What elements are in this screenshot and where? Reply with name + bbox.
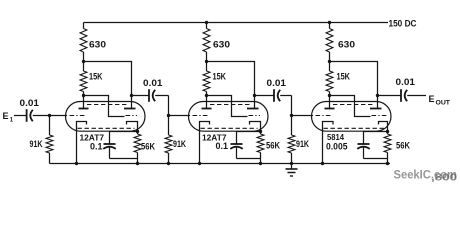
tube V2 lower internal dashed line: [201, 127, 258, 129]
capacitor C1 0.01 input coupling: [27, 109, 33, 122]
label 15K stage 2: [213, 72, 227, 82]
wire coupling drop to stage 2 grid: [169, 96, 191, 116]
node cathode junction stage 2: [259, 130, 262, 133]
tube V3 right cathode and lead: [379, 122, 388, 132]
node 630 stage 2 supply junction: [205, 21, 208, 24]
node X stage 3 (630/15K junction): [328, 60, 331, 63]
tube V2 12AT7 envelope: [189, 102, 269, 132]
label R2 91K: [30, 139, 43, 149]
wire cathode node line stage 1: [110, 131, 138, 133]
capacitor 0.01 coupling stage 1: [149, 89, 155, 102]
resistor 91K grid leak stage 3: [288, 116, 295, 164]
label 630 stage 1: [89, 40, 106, 50]
tube V1 left cathode and lead to ground: [77, 122, 87, 164]
wire step to right grid stage 1: [84, 96, 125, 117]
node cathode junction stage 3: [386, 130, 389, 133]
svg-text:0.01: 0.01: [267, 78, 287, 88]
svg-text:150 DC: 150 DC: [389, 19, 417, 29]
tube V3 left plate bar: [325, 108, 335, 110]
tube V2 left plate bar: [202, 108, 212, 110]
svg-text:5814: 5814: [327, 132, 344, 142]
svg-text:630: 630: [338, 40, 355, 50]
wire left plate lead stage 1: [83, 96, 85, 109]
resistor 56K cathode stage 2: [257, 132, 264, 164]
tube V2 right plate bar: [247, 108, 259, 110]
wire plate to coupling cap stage 1: [132, 95, 149, 97]
tube V2 right cathode and lead: [250, 122, 261, 132]
label tube V3 5814: [327, 132, 344, 142]
svg-text:0.01: 0.01: [20, 98, 40, 108]
label 15K stage 3: [337, 72, 351, 82]
capacitor 0.01 coupling stage 2: [274, 89, 280, 102]
wire step to right grid stage 2: [207, 96, 248, 117]
capacitor 0.01 coupling stage 3: [401, 89, 407, 102]
label C1 0.01: [20, 98, 40, 108]
label coupling 0.01 stage 1: [143, 78, 163, 88]
tube V2 left cathode and lead to ground: [200, 122, 210, 164]
label 15K stage 1: [89, 72, 103, 82]
label 91K stage 2: [173, 139, 186, 149]
wire E1 to C1: [14, 115, 26, 117]
wire cathode node line stage 2: [237, 131, 261, 133]
svg-text:91K: 91K: [296, 139, 309, 149]
wire node X to right plate stage 3: [330, 62, 378, 109]
svg-text:91K: 91K: [173, 139, 186, 149]
resistor 56K cathode stage 3: [384, 132, 391, 164]
resistor R2 91K grid leak stage 1: [46, 116, 53, 164]
svg-text:,800: ,800: [431, 173, 458, 184]
resistor 15K stage 1: [80, 62, 87, 96]
svg-text:0.1: 0.1: [216, 141, 229, 151]
tube V3 left cathode and lead to ground: [323, 122, 334, 164]
node 91K stage 2 ground junction: [167, 162, 170, 165]
node right plate / coupling junction stage 3: [376, 94, 379, 97]
node cathode junction stage 1: [136, 130, 139, 133]
wire coupling drop to stage 3 grid: [292, 96, 314, 116]
node 56K stage 1 ground junction: [136, 162, 139, 165]
label 56K stage 3: [396, 141, 410, 151]
wire plate to coupling cap stage 2: [255, 95, 274, 97]
node 15K / left plate junction stage 3: [328, 94, 331, 97]
svg-text:630: 630: [213, 40, 230, 50]
tube V3 right plate bar: [370, 108, 382, 110]
tube V3 lower internal dashed line: [324, 127, 385, 129]
resistor 630 plate load stage 1: [80, 23, 87, 62]
svg-text:E: E: [429, 94, 435, 104]
watermark SeekIC.com: [394, 170, 458, 182]
wire coupling cap output stage 2: [280, 95, 291, 97]
node right plate / coupling junction stage 1: [130, 94, 133, 97]
tube V1 upper internal dashed line: [87, 104, 128, 106]
tube V2 upper internal dashed line: [210, 104, 251, 106]
ground bus: [50, 163, 391, 165]
svg-text:630: 630: [89, 40, 106, 50]
wire coupling cap output stage 1: [155, 95, 168, 97]
node right plate / coupling junction stage 2: [253, 94, 256, 97]
svg-text:91K: 91K: [30, 139, 43, 149]
node grid stage 2 junction: [167, 114, 170, 117]
wire cathode node line stage 3: [364, 131, 388, 133]
svg-text:0.1: 0.1: [90, 142, 103, 152]
wire output cap to E OUT: [407, 95, 426, 97]
label 630 stage 2: [213, 40, 230, 50]
svg-text:15K: 15K: [337, 72, 351, 82]
node left cathode stage 1 ground junction: [75, 162, 78, 165]
svg-text:15K: 15K: [213, 72, 227, 82]
tube V1 left plate bar: [79, 108, 89, 110]
tube V3 left grid (dashed): [316, 115, 333, 117]
tube V1 left grid (dashed): [70, 115, 87, 117]
tube V3 5814 envelope: [312, 102, 392, 132]
watermark figure number: [431, 173, 458, 184]
tube V1 12AT7 envelope: [66, 102, 146, 132]
tube V1 right cathode and lead: [127, 122, 138, 132]
resistor 15K stage 3: [326, 62, 333, 96]
label coupling 0.01 stage 3: [396, 77, 416, 87]
label coupling 0.01 stage 2: [267, 78, 287, 88]
svg-text:56K: 56K: [141, 141, 155, 151]
wire node X to right plate stage 2: [207, 62, 255, 109]
svg-text:56K: 56K: [266, 141, 280, 151]
node grid stage 1 junction: [48, 114, 51, 117]
tube V2 left grid (dashed): [193, 115, 210, 117]
capacitor 0.005 cathode bypass stage 3: [357, 132, 387, 159]
wire C1 to grid node: [33, 115, 67, 117]
svg-text:OUT: OUT: [436, 100, 451, 107]
node X stage 1 (630/15K junction): [82, 60, 85, 63]
label 0.1 stage 2: [216, 141, 229, 151]
resistor 91K grid leak stage 2: [165, 116, 172, 164]
node 630 stage 3 supply junction: [328, 21, 331, 24]
node grid stage 3 junction: [290, 114, 293, 117]
node 15K / left plate junction stage 1: [82, 94, 85, 97]
label 150 DC: [389, 19, 417, 29]
capacitor 0.1 cathode bypass stage 1: [103, 132, 137, 159]
resistor 630 plate load stage 3: [326, 23, 333, 62]
tube V1 right plate bar: [124, 108, 136, 110]
svg-text:0.005: 0.005: [326, 142, 348, 152]
label 56K stage 2: [266, 141, 280, 151]
wire plate to coupling cap stage 3: [378, 95, 401, 97]
resistor 630 plate load stage 2: [203, 23, 210, 62]
power bus 150 DC: [84, 22, 389, 24]
tube V2 right grid (dashed): [249, 115, 261, 117]
wire left plate lead stage 3: [329, 96, 331, 109]
node 56K stage 3 ground junction: [386, 162, 389, 165]
node left cathode stage 3 ground junction: [321, 162, 324, 165]
node left cathode stage 2 ground junction: [198, 162, 201, 165]
capacitor 0.1 cathode bypass stage 2: [230, 132, 260, 159]
label 91K stage 3: [296, 139, 309, 149]
label 0.1 stage 1: [90, 142, 103, 152]
tube V3 right grid (dashed): [372, 115, 388, 117]
svg-text:0.01: 0.01: [143, 78, 163, 88]
svg-text:E: E: [3, 111, 9, 121]
tube V1 right grid (dashed): [126, 115, 138, 117]
tube V1 lower internal dashed line: [78, 127, 135, 129]
node 15K / left plate junction stage 2: [205, 94, 208, 97]
label 0.005 stage 3: [326, 142, 348, 152]
node X stage 2 (630/15K junction): [205, 60, 208, 63]
label tube V1 12AT7: [80, 133, 105, 143]
node 91K stage 3 ground junction: [290, 162, 293, 165]
resistor 56K cathode stage 1: [134, 132, 141, 164]
tube V3 upper internal dashed line: [333, 104, 374, 106]
node E OUT terminal: [429, 94, 451, 107]
node E1 input terminal: [3, 111, 14, 124]
resistor 15K stage 2: [203, 62, 210, 96]
svg-text:56K: 56K: [396, 141, 410, 151]
svg-text:15K: 15K: [89, 72, 103, 82]
ground symbol: [286, 164, 298, 177]
label 630 stage 3: [338, 40, 355, 50]
label tube V2 12AT7: [202, 132, 227, 142]
wire node X to right plate stage 1: [84, 62, 132, 109]
svg-text:0.01: 0.01: [396, 77, 416, 87]
label 56K stage 1: [141, 141, 155, 151]
wire step to right grid stage 3: [330, 96, 371, 117]
wire left plate lead stage 2: [206, 96, 208, 109]
node 56K stage 2 ground junction: [259, 162, 262, 165]
